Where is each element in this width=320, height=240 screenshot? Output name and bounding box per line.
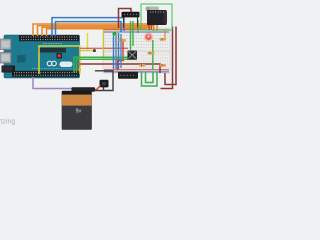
green jumpers on breadboard — [131, 20, 153, 70]
black bar component — [122, 12, 140, 28]
breadboard top power rails — [104, 30, 169, 32]
servo horn — [146, 7, 160, 12]
breadboard hole grid — [105, 36, 168, 68]
switch component — [100, 80, 109, 88]
wire orange 4 — [47, 29, 147, 36]
resistor R2 — [160, 38, 167, 41]
reset button — [57, 53, 63, 59]
fritzing watermark — [1, 119, 16, 126]
Arduino Mega board — [4, 35, 80, 78]
arduino label oval — [60, 62, 73, 68]
wire salmon horizontal — [80, 47, 128, 49]
wire orange 1 — [33, 24, 157, 36]
wire blue 1 — [52, 18, 124, 36]
9V battery — [62, 91, 92, 130]
board led — [78, 68, 81, 71]
breadboard — [103, 28, 170, 73]
chip U2 — [17, 55, 26, 63]
blue jumpers on breadboard — [114, 33, 122, 69]
dark red loop top — [119, 9, 132, 29]
red LED — [144, 32, 153, 41]
wire dark red long — [79, 63, 161, 73]
red battery lead — [91, 86, 101, 90]
wire green pair 1 — [74, 57, 130, 73]
wire red LED feed — [122, 41, 124, 60]
breadboard bottom power rails — [104, 70, 169, 72]
infinity logo — [47, 61, 56, 66]
servo selection box — [141, 4, 172, 30]
resistor R3 — [148, 52, 155, 55]
wire yellow drop — [87, 33, 89, 51]
servo pigtail — [149, 25, 154, 30]
battery clip — [72, 87, 96, 91]
green LED — [112, 31, 117, 36]
wire blue 2 — [56, 22, 122, 36]
power jack — [2, 66, 16, 73]
svg-text:9v: 9v — [76, 109, 82, 115]
board silkscreen text — [32, 44, 76, 69]
wire yellow-green short — [80, 49, 96, 52]
wire orange 3 — [42, 27, 150, 36]
wire yellow D-pin to breadboard — [39, 46, 80, 74]
green U loop outer — [142, 72, 158, 86]
wire green pair 2 — [77, 59, 137, 73]
wire olive vertical — [103, 29, 105, 57]
servo body — [147, 10, 167, 25]
top pin header — [19, 35, 79, 41]
USB connector — [0, 39, 11, 50]
resistor R5 — [160, 64, 167, 67]
black wire loop switch — [95, 71, 113, 91]
pushbutton with X — [128, 51, 138, 60]
resistor R4 — [139, 64, 146, 67]
ATmega chip — [38, 48, 66, 53]
DIP IC below breadboard — [118, 72, 138, 79]
green U loop inner — [146, 72, 154, 83]
dark red U right outer — [165, 27, 176, 85]
wire purple battery — [33, 77, 74, 89]
dark red U right inner — [161, 27, 173, 89]
resistor R1 — [119, 39, 127, 42]
second metal connector — [0, 53, 11, 64]
bottom pin header — [12, 71, 79, 77]
wire bright red mid — [118, 61, 125, 71]
svg-text:tzing: tzing — [1, 119, 16, 126]
wire orange 2 — [38, 26, 154, 36]
wire orange stub — [164, 30, 166, 39]
